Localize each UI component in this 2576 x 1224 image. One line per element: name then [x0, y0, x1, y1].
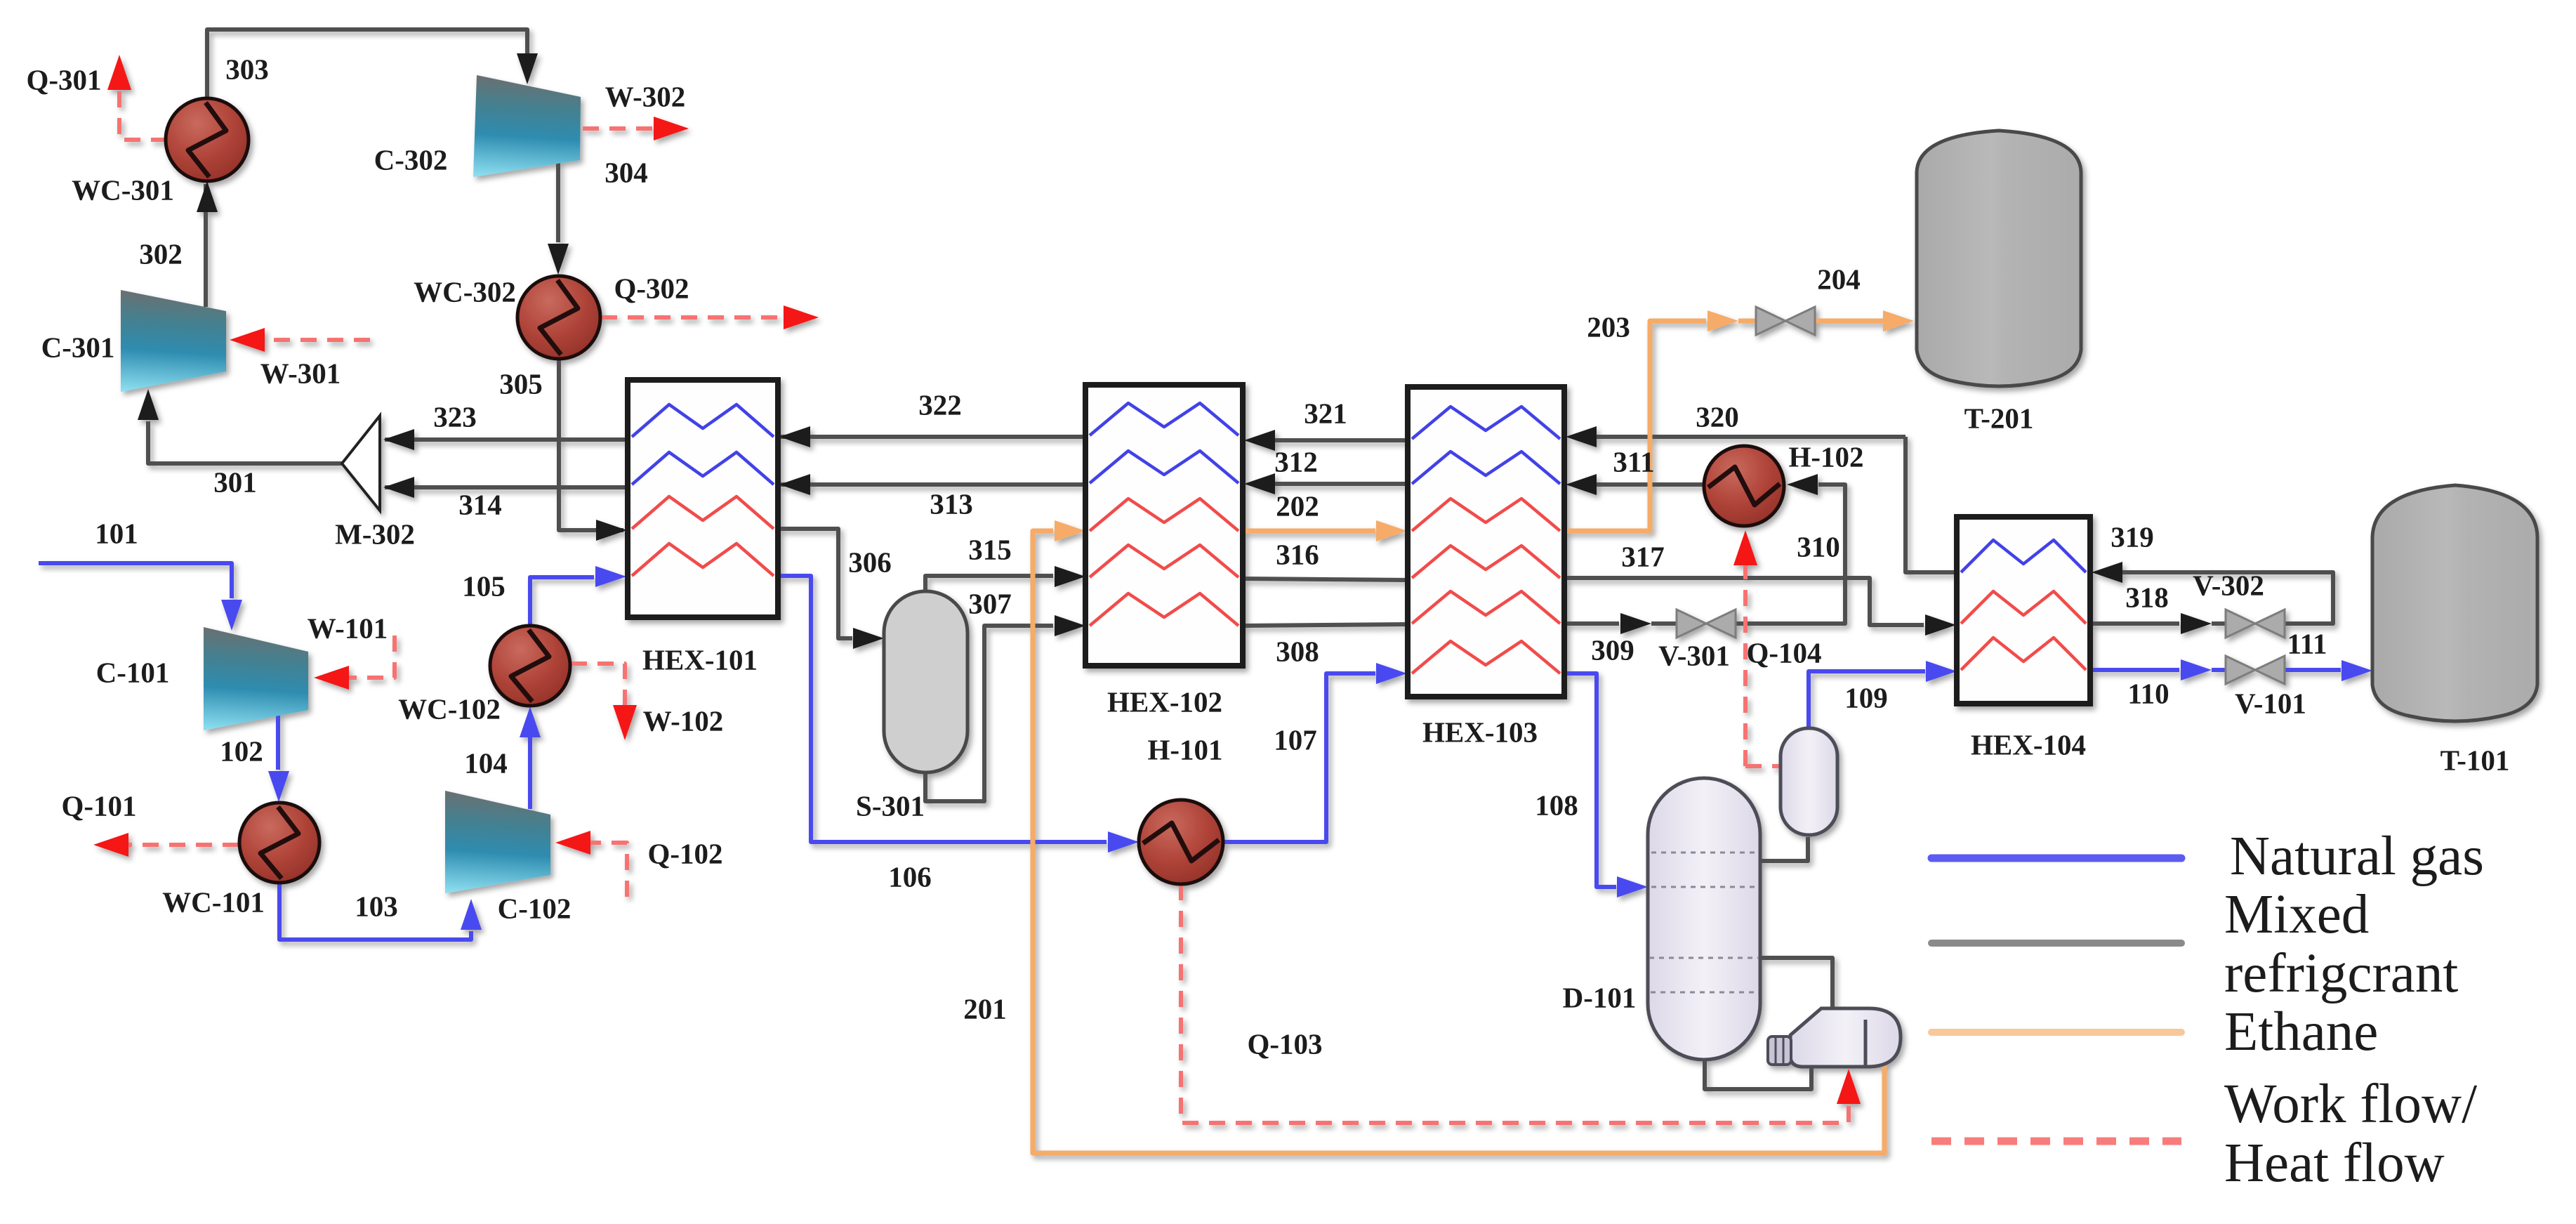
- svg-text:107: 107: [1274, 723, 1317, 756]
- stream 304 arrow into WC-302: [548, 244, 569, 275]
- svg-text:C-102: C-102: [498, 892, 572, 924]
- stream 108 arrow into D-101: [1617, 876, 1648, 897]
- stream 318 wire a: [2090, 621, 2179, 626]
- stream 104 wire: [528, 737, 532, 809]
- work W-302 arrow: [654, 117, 689, 140]
- stream 318 arrow: [2181, 613, 2212, 634]
- work W-101 arrow into C-101: [314, 666, 349, 690]
- svg-text:HEX-103: HEX-103: [1422, 716, 1538, 748]
- stream 202 wire: [1243, 529, 1375, 534]
- svg-text:106: 106: [888, 860, 932, 893]
- stream 319 arrow into HEX-104: [2092, 562, 2122, 583]
- stream 301 arrow into C-301: [138, 389, 159, 420]
- heat Q-102 wire: [587, 843, 627, 897]
- heat Q-104 wire a: [1745, 764, 1781, 768]
- svg-text:109: 109: [1844, 681, 1888, 713]
- svg-text:303: 303: [225, 53, 269, 85]
- compressor C-302: [473, 75, 581, 177]
- cooler WC-101: [239, 803, 319, 883]
- stream 111 wire: [2284, 668, 2341, 672]
- heat Q-103 arrow into reboiler: [1837, 1069, 1861, 1104]
- svg-text:H-102: H-102: [1788, 440, 1863, 473]
- legend mixed refrigerant line: [1931, 940, 2181, 947]
- svg-text:T-201: T-201: [1964, 402, 2034, 434]
- stream 303 arrow into C-302: [517, 53, 538, 84]
- valve 204 letdown valve: [1756, 307, 1815, 335]
- svg-text:318: 318: [2125, 581, 2169, 613]
- cooler WC-102: [490, 626, 570, 706]
- svg-text:203: 203: [1587, 310, 1630, 343]
- valve V-101: [2226, 656, 2285, 684]
- heat exchanger HEX-101: [628, 380, 778, 617]
- work W-101 wire: [345, 636, 395, 678]
- wire D-101 bottom to reboiler: [1705, 1058, 1811, 1089]
- legend ethane line: [1931, 1029, 2181, 1036]
- stream 307 wire: [925, 626, 1053, 801]
- svg-text:305: 305: [499, 367, 543, 400]
- svg-text:D-101: D-101: [1563, 981, 1637, 1013]
- stream 202 arrow into HEX-103: [1376, 520, 1407, 541]
- tank T-201: [1917, 131, 2081, 386]
- svg-text:Ethane: Ethane: [2224, 1001, 2378, 1062]
- svg-text:W-301: W-301: [260, 357, 341, 389]
- svg-text:T-101: T-101: [2440, 744, 2510, 776]
- stream 107 arrow into HEX-103: [1376, 663, 1407, 684]
- svg-text:WC-301: WC-301: [72, 173, 174, 206]
- svg-text:320: 320: [1696, 400, 1739, 433]
- stream 321 wire: [1275, 438, 1408, 442]
- heater H-102: [1704, 446, 1784, 526]
- legend work/heat flow line: [1931, 1138, 2181, 1145]
- stream 320 arrow into HEX-103: [1566, 426, 1597, 447]
- svg-text:W-302: W-302: [605, 80, 686, 112]
- stream 107 wire: [1223, 673, 1375, 842]
- legend natural gas line: [1931, 855, 2181, 862]
- stream 312 wire: [1275, 482, 1408, 486]
- heat Q-101 wire: [125, 843, 239, 847]
- svg-text:V-101: V-101: [2235, 687, 2306, 719]
- svg-text:315: 315: [968, 533, 1012, 565]
- svg-text:Q-101: Q-101: [61, 789, 136, 822]
- svg-text:V-301: V-301: [1658, 639, 1730, 671]
- valve V-301: [1677, 610, 1736, 638]
- stream 301 wire: [148, 421, 342, 463]
- svg-text:313: 313: [930, 487, 973, 520]
- svg-text:HEX-102: HEX-102: [1107, 685, 1222, 718]
- stream 103 wire: [279, 883, 471, 940]
- work W-102 wire: [571, 664, 625, 708]
- svg-text:Heat flow: Heat flow: [2224, 1133, 2445, 1194]
- svg-text:102: 102: [220, 735, 263, 767]
- stream 316 wire: [1243, 579, 1408, 580]
- svg-text:316: 316: [1276, 538, 1319, 570]
- svg-text:312: 312: [1274, 445, 1318, 478]
- stream 313 wire: [778, 482, 1085, 487]
- stream 310 wire: [1735, 485, 1845, 624]
- heat exchanger HEX-104: [1957, 517, 2090, 704]
- svg-text:M-302: M-302: [335, 518, 415, 550]
- svg-text:323: 323: [433, 400, 477, 433]
- heat Q-301 wire: [119, 84, 167, 140]
- stream 109 arrow into HEX-104: [1926, 661, 1957, 682]
- tank T-101: [2372, 485, 2537, 721]
- separator S-301: [884, 591, 967, 772]
- work W-301 wire: [261, 338, 370, 342]
- svg-text:Natural gas: Natural gas: [2230, 826, 2484, 887]
- stream 110 wire a: [2090, 668, 2179, 672]
- svg-text:306: 306: [848, 546, 892, 578]
- stream 310 arrow into H-102: [1787, 474, 1818, 495]
- svg-text:Q-302: Q-302: [614, 272, 689, 304]
- svg-text:101: 101: [95, 517, 138, 549]
- stream 203 wire: [1564, 321, 1706, 531]
- svg-text:W-102: W-102: [643, 704, 724, 737]
- stream 322 wire: [778, 435, 1085, 439]
- heat Q-101 arrow: [93, 833, 128, 857]
- svg-text:307: 307: [968, 587, 1012, 619]
- svg-text:C-302: C-302: [374, 143, 448, 176]
- svg-text:309: 309: [1591, 633, 1634, 666]
- stream 317 arrow into HEX-104: [1925, 614, 1956, 636]
- svg-text:Q-104: Q-104: [1746, 636, 1821, 669]
- stream 105 arrow into HEX-101: [595, 566, 626, 587]
- stream 317 wire: [1564, 578, 1924, 625]
- wire D-101 top to flash drum: [1760, 837, 1808, 861]
- svg-text:202: 202: [1276, 489, 1319, 522]
- stream 311 wire: [1595, 482, 1704, 487]
- stream 109 wire: [1809, 671, 1925, 728]
- stream 105 wire: [530, 577, 594, 626]
- stream 111 arrow into T-101: [2341, 660, 2372, 681]
- stream 108 wire: [1564, 673, 1616, 887]
- stream 302 wire: [204, 184, 208, 307]
- stream 311 arrow into HEX-103: [1566, 474, 1597, 495]
- cooler WC-301: [166, 98, 249, 181]
- stream 102 wire: [276, 716, 280, 770]
- svg-text:321: 321: [1304, 397, 1347, 429]
- svg-text:H-101: H-101: [1147, 733, 1222, 765]
- svg-text:304: 304: [605, 156, 648, 188]
- svg-text:Mixed: Mixed: [2224, 884, 2369, 945]
- stream 305 wire: [559, 359, 623, 530]
- stream 308 wire: [1243, 624, 1408, 626]
- svg-text:311: 311: [1613, 445, 1654, 478]
- svg-text:WC-302: WC-302: [414, 275, 516, 308]
- stream 320 wire horizontal: [1595, 435, 1905, 439]
- stream 306 wire: [778, 529, 852, 638]
- svg-text:111: 111: [2287, 627, 2327, 659]
- flash drum above reboiler: [1781, 728, 1837, 835]
- work W-301 arrow into C-301: [230, 328, 265, 352]
- svg-text:110: 110: [2127, 677, 2169, 709]
- stream 106 wire: [778, 576, 1107, 842]
- heat Q-302 wire: [601, 315, 786, 320]
- wire D-101 side to reboiler: [1760, 958, 1832, 1010]
- stream 322 arrow into HEX-101: [779, 426, 810, 447]
- svg-text:105: 105: [462, 570, 506, 602]
- stream 106 arrow into H-101: [1108, 831, 1139, 853]
- heat Q-302 arrow: [784, 305, 819, 329]
- heat exchanger HEX-103: [1408, 387, 1564, 697]
- stream 303 wire: [207, 29, 527, 99]
- svg-text:Work flow/: Work flow/: [2224, 1074, 2477, 1135]
- stream 204 arrow into T-201: [1883, 310, 1914, 331]
- reboiler: [1768, 1008, 1901, 1067]
- heat Q-301 arrow: [107, 55, 131, 90]
- svg-text:W-101: W-101: [308, 612, 388, 644]
- svg-text:322: 322: [918, 388, 962, 421]
- svg-text:201: 201: [963, 992, 1007, 1025]
- stream 201 arrow into HEX-102: [1055, 520, 1085, 541]
- heat exchanger HEX-102: [1085, 385, 1243, 666]
- stream 306 arrow into S-301: [853, 628, 884, 649]
- svg-text:317: 317: [1621, 540, 1665, 572]
- svg-text:319: 319: [2111, 520, 2154, 553]
- stream 201 wire: [1033, 531, 1884, 1153]
- compressor C-301: [121, 290, 226, 392]
- stream 315 wire: [925, 576, 1053, 591]
- stream 309 wire b: [1651, 621, 1677, 626]
- svg-text:HEX-104: HEX-104: [1971, 728, 2086, 761]
- stream 320 wire vertical to HEX-104: [1905, 437, 1957, 572]
- svg-text:refrigcrant: refrigcrant: [2224, 943, 2458, 1004]
- stream 319 wire: [2122, 572, 2333, 624]
- svg-text:302: 302: [139, 237, 183, 270]
- stream 304 wire: [556, 162, 560, 242]
- cooler WC-302: [517, 276, 600, 359]
- stream 321 arrow into HEX-102: [1244, 430, 1275, 451]
- stream 203 arrow: [1708, 310, 1738, 331]
- stream 318 wire b: [2212, 621, 2226, 626]
- svg-text:Q-103: Q-103: [1247, 1027, 1322, 1060]
- heater H-101: [1139, 800, 1223, 884]
- work W-102 arrow: [613, 705, 637, 740]
- svg-text:301: 301: [213, 466, 257, 498]
- stream 305 arrow into HEX-101: [596, 520, 627, 541]
- stream 110 arrow: [2181, 659, 2212, 680]
- heat Q-104 wire b: [1743, 562, 1748, 766]
- stream 103 arrow into C-102: [461, 899, 482, 930]
- stream 315 arrow into HEX-102: [1055, 566, 1085, 587]
- work W-302 wire: [583, 126, 656, 131]
- svg-text:Q-102: Q-102: [647, 837, 722, 869]
- svg-text:C-301: C-301: [41, 331, 115, 363]
- stream 309 arrow: [1620, 613, 1651, 634]
- svg-text:WC-102: WC-102: [398, 692, 501, 725]
- svg-text:HEX-101: HEX-101: [642, 643, 758, 676]
- stream 312 arrow into HEX-102: [1244, 473, 1275, 494]
- valve V-302: [2226, 610, 2285, 638]
- stream 309 wire a: [1564, 621, 1619, 626]
- stream 101 wire: [39, 563, 232, 598]
- stream 101 arrow into C-101: [221, 600, 242, 631]
- stream 102 arrow into WC-101: [268, 771, 289, 802]
- stream 323 arrow into M-302: [383, 429, 414, 450]
- heat Q-102 arrow into C-102: [555, 831, 590, 855]
- stream 307 arrow into HEX-102: [1055, 615, 1085, 636]
- stream 110 wire b: [2212, 668, 2226, 672]
- svg-text:104: 104: [464, 746, 508, 779]
- mixer M-302: [342, 416, 380, 511]
- stream 314 wire: [385, 485, 628, 489]
- svg-text:314: 314: [458, 488, 502, 520]
- stream 323 wire: [385, 437, 628, 442]
- svg-text:310: 310: [1797, 530, 1840, 562]
- svg-text:108: 108: [1535, 789, 1578, 821]
- stream 204 wire a: [1738, 319, 1757, 324]
- heat Q-103 wire: [1181, 884, 1849, 1123]
- svg-text:204: 204: [1817, 263, 1861, 295]
- svg-text:C-101: C-101: [96, 656, 170, 688]
- compressor C-102: [445, 791, 550, 893]
- stream 104 arrow into WC-102: [520, 706, 541, 737]
- svg-text:308: 308: [1276, 635, 1319, 667]
- stream 314 arrow into M-302: [383, 477, 414, 498]
- stream 302 arrow into WC-301: [197, 181, 218, 212]
- svg-text:V-302: V-302: [2193, 569, 2264, 601]
- stream 313 arrow into HEX-101: [779, 474, 810, 495]
- svg-text:WC-101: WC-101: [162, 886, 265, 918]
- stream 204 wire b: [1814, 319, 1883, 324]
- svg-text:Q-301: Q-301: [26, 63, 101, 96]
- svg-text:S-301: S-301: [856, 789, 925, 822]
- svg-text:103: 103: [355, 890, 398, 922]
- compressor C-101: [204, 627, 308, 730]
- column D-101: [1648, 778, 1760, 1060]
- heat Q-104 arrow into H-102: [1733, 530, 1757, 565]
